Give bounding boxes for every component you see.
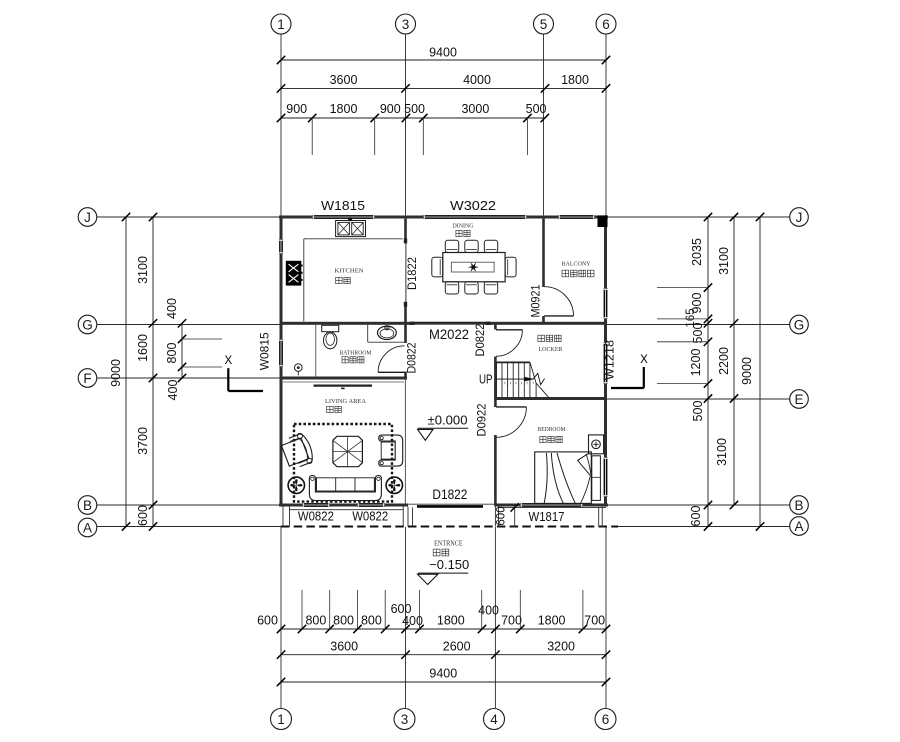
svg-text:W3022: W3022 — [450, 198, 496, 213]
stair treads — [496, 363, 498, 397]
svg-text:LIVING AREA: LIVING AREA — [325, 398, 366, 405]
svg-text:W1815: W1815 — [321, 198, 365, 213]
entrance step sides — [412, 508, 414, 527]
axis bubble 4 bottom — [484, 709, 505, 730]
kitchen sink — [336, 221, 366, 237]
svg-text:F: F — [83, 371, 91, 386]
svg-text:ENTRNCE: ENTRNCE — [434, 541, 463, 548]
axis G line left — [97, 324, 282, 326]
svg-text:700: 700 — [584, 614, 605, 628]
svg-text:600: 600 — [496, 506, 508, 525]
window W3022 — [423, 215, 527, 219]
dining chair right — [505, 257, 516, 277]
svg-text:400: 400 — [165, 298, 179, 319]
bed outline — [535, 452, 592, 504]
svg-text:−0.150: −0.150 — [429, 557, 469, 572]
door D0822 bathroom arc — [378, 346, 405, 373]
svg-text:3: 3 — [401, 712, 409, 727]
svg-text:3700: 3700 — [136, 427, 150, 455]
east wall — [604, 215, 607, 506]
wall hall-locker g4 — [494, 323, 497, 329]
svg-text:BALCONY: BALCONY — [562, 261, 591, 268]
door D1822 kitchen slider — [405, 242, 407, 304]
door M0921 balcony leaf — [544, 315, 573, 317]
svg-text:6: 6 — [602, 17, 610, 32]
svg-text:9400: 9400 — [429, 46, 457, 60]
window W0815 — [279, 339, 283, 367]
svg-text:D1822: D1822 — [432, 487, 467, 502]
basin counter — [367, 325, 369, 342]
axis bubble 3 bottom — [394, 709, 415, 730]
svg-text:9000: 9000 — [109, 359, 123, 387]
window balcony north — [558, 215, 595, 219]
svg-text:9000: 9000 — [740, 357, 754, 385]
door D0922 bedroom arc — [496, 407, 526, 437]
right dim line 9000 — [759, 217, 761, 527]
right dim line majors — [733, 217, 735, 505]
wall G kitchen-dining — [281, 322, 606, 325]
window W1218 — [604, 342, 608, 384]
svg-text:4000: 4000 — [463, 73, 491, 87]
bottom extension stubs — [301, 590, 303, 629]
toilet bowl — [324, 332, 337, 349]
toilet tank — [322, 325, 339, 331]
svg-text:UP: UP — [479, 373, 493, 387]
top extension stubs — [311, 118, 313, 155]
svg-text:600: 600 — [136, 505, 150, 526]
svg-text:±0.000: ±0.000 — [428, 413, 468, 428]
svg-text:400: 400 — [166, 380, 180, 401]
bathroom partition — [315, 325, 317, 377]
svg-text:4: 4 — [490, 712, 498, 727]
axis bubble F left — [78, 369, 97, 388]
tv cabinet line — [314, 385, 373, 387]
rug border — [294, 424, 392, 502]
svg-text:E: E — [794, 392, 803, 407]
svg-text:A: A — [83, 520, 92, 535]
svg-text:600: 600 — [257, 614, 278, 628]
axis bubble 5 top — [534, 14, 554, 34]
svg-text:1: 1 — [277, 17, 285, 32]
svg-text:3600: 3600 — [330, 73, 358, 87]
svg-text:D0822: D0822 — [473, 323, 487, 356]
svg-text:500: 500 — [404, 102, 425, 116]
svg-text:3200: 3200 — [547, 639, 575, 653]
kitchen counter left edge — [303, 239, 305, 322]
svg-text:B: B — [794, 498, 803, 513]
axis bubble 6 top — [596, 14, 616, 34]
svg-text:800: 800 — [333, 614, 354, 628]
svg-text:B: B — [83, 498, 92, 513]
armchair right — [379, 435, 403, 466]
axis bubble E right — [790, 390, 809, 409]
bottom dim line row2 — [281, 654, 606, 656]
svg-text:6: 6 — [602, 712, 610, 727]
svg-text:1: 1 — [277, 712, 285, 727]
svg-text:900: 900 — [286, 102, 307, 116]
window W0822 a — [302, 503, 330, 507]
grid line 3 bottom — [405, 527, 407, 708]
living top thin line — [283, 381, 404, 383]
stair arrow zigzag — [533, 373, 545, 384]
column grid6-J filled — [598, 215, 608, 227]
top dim line 9400 — [281, 59, 606, 61]
svg-text:1800: 1800 — [330, 102, 358, 116]
plant pot left — [288, 477, 304, 493]
svg-text:2600: 2600 — [443, 639, 471, 653]
svg-text:G: G — [82, 317, 93, 332]
svg-text:LOCKER: LOCKER — [539, 346, 564, 353]
svg-text:500: 500 — [526, 102, 547, 116]
svg-text:600: 600 — [689, 506, 703, 527]
wall F bathroom — [281, 377, 407, 380]
dining label cjk — [456, 230, 462, 236]
nightstand — [589, 435, 604, 454]
wall kitchen-dining g3 — [404, 219, 407, 242]
wall dining-balcony g5 — [542, 219, 545, 287]
door D0822 locker leaf — [496, 329, 522, 331]
stair break diagonal lower — [536, 383, 549, 398]
axis B line right — [606, 504, 790, 506]
armchair top-left — [280, 431, 316, 470]
axis bubble 1 bottom — [271, 709, 292, 730]
bed headboard — [592, 456, 601, 501]
svg-text:DINING: DINING — [453, 223, 475, 230]
balcony label cjk — [562, 270, 569, 277]
stair break diagonal upper — [530, 362, 536, 383]
svg-text:J: J — [796, 210, 803, 225]
grid line 1 top — [280, 34, 282, 216]
grid line 5 top — [543, 34, 545, 216]
axis A line left — [97, 526, 282, 528]
axis F line — [97, 377, 282, 379]
svg-text:KITCHEN: KITCHEN — [335, 268, 364, 275]
svg-text:800: 800 — [361, 614, 382, 628]
svg-text:X: X — [224, 355, 232, 367]
svg-text:W0815: W0815 — [258, 332, 272, 370]
svg-text:2200: 2200 — [717, 347, 731, 375]
basin bowl — [378, 326, 397, 339]
svg-text:3000: 3000 — [461, 102, 489, 116]
door D0822 bathroom leaf — [378, 371, 405, 373]
window kitchen west — [279, 239, 283, 254]
window bedroom east — [604, 457, 608, 497]
svg-text:W1218: W1218 — [603, 340, 617, 380]
window balcony east — [604, 288, 608, 319]
wall living-hall thin — [404, 380, 406, 504]
svg-text:500: 500 — [691, 401, 705, 422]
stair step ticks — [504, 382, 506, 384]
svg-text:5: 5 — [540, 17, 548, 32]
svg-text:3600: 3600 — [330, 639, 358, 653]
south wall — [279, 504, 408, 507]
dining table — [443, 253, 505, 282]
axis bubble 1 top — [271, 14, 291, 34]
svg-text:M2022: M2022 — [429, 327, 469, 342]
door M2022 slider — [414, 321, 486, 323]
axis G line right — [606, 324, 790, 326]
svg-text:1800: 1800 — [561, 73, 589, 87]
right dim line segments — [707, 217, 709, 527]
door D0922 bedroom leaf — [496, 406, 526, 408]
window W1815 — [312, 215, 375, 219]
svg-text:M0921: M0921 — [528, 284, 542, 317]
svg-text:D0822: D0822 — [405, 342, 419, 373]
svg-text:800: 800 — [165, 343, 179, 364]
grid line 6 top — [605, 34, 607, 216]
entrance label cjk — [433, 549, 440, 556]
svg-text:700: 700 — [501, 614, 522, 628]
sofa — [309, 476, 381, 501]
door D1822 entrance panel — [417, 505, 483, 508]
svg-text:1600: 1600 — [136, 334, 150, 362]
grid line 4 bottom — [494, 527, 496, 708]
kitchen label cjk — [336, 277, 342, 283]
west wall — [280, 215, 283, 506]
coffee table — [333, 436, 363, 466]
bedroom label cjk — [540, 436, 546, 442]
svg-text:W0822: W0822 — [298, 510, 334, 524]
porch left box — [282, 507, 284, 527]
axis bubble 3 top — [396, 14, 416, 34]
svg-text:BATHROOM: BATHROOM — [340, 349, 372, 356]
porch edge dashed line A — [281, 526, 618, 528]
living label cjk — [327, 406, 333, 412]
axis bubble G left — [78, 315, 97, 334]
svg-text:900: 900 — [380, 102, 401, 116]
dining centerpiece plant — [468, 262, 479, 272]
kitchen stove — [286, 261, 301, 285]
axis J line — [97, 216, 791, 218]
left extension stubs — [182, 338, 222, 340]
floor drain — [295, 364, 303, 372]
door M0921 balcony arc — [544, 287, 573, 316]
axis E line — [606, 398, 790, 400]
axis B line left — [97, 504, 282, 506]
svg-text:3100: 3100 — [136, 256, 150, 284]
dining chair left — [432, 257, 443, 277]
svg-text:G: G — [794, 317, 805, 332]
left dim line window — [181, 323, 183, 378]
dining table inner — [451, 262, 494, 272]
svg-text:D1822: D1822 — [405, 257, 419, 290]
svg-text:9400: 9400 — [429, 667, 457, 681]
north wall — [279, 216, 608, 219]
wall E stairs-bedroom — [494, 397, 606, 400]
svg-text:500: 500 — [691, 323, 705, 344]
stair tread after break — [535, 383, 537, 397]
svg-text:1800: 1800 — [437, 614, 465, 628]
svg-text:J: J — [84, 210, 91, 225]
svg-text:800: 800 — [305, 614, 326, 628]
bathroom label cjk — [342, 357, 348, 363]
right extension stubs — [657, 287, 708, 289]
grid line 3 top — [405, 34, 407, 216]
svg-text:1200: 1200 — [689, 349, 703, 377]
bed blanket curves — [544, 453, 547, 503]
window W0822 b — [357, 503, 385, 507]
top dim line row2 — [281, 87, 606, 89]
dining chairs top — [445, 240, 458, 252]
stair up arrowhead — [525, 377, 535, 382]
svg-text:3100: 3100 — [715, 438, 729, 466]
svg-text:X: X — [640, 354, 648, 366]
svg-text:3: 3 — [402, 17, 410, 32]
bed pillow — [578, 453, 591, 475]
kitchen counter top edge — [304, 238, 403, 240]
svg-text:D0922: D0922 — [475, 403, 489, 436]
dining chairs bottom — [445, 282, 458, 294]
axis bubble G right — [790, 315, 809, 334]
axis bubble B right — [790, 496, 809, 515]
bottom dim line row1 — [281, 628, 606, 630]
window W1817 — [520, 503, 583, 507]
top dim line row3 — [281, 117, 545, 119]
porch right box — [498, 507, 500, 527]
axis bubble J right — [790, 208, 809, 227]
axis bubble A right — [790, 517, 809, 536]
svg-text:W1817: W1817 — [529, 510, 565, 524]
grid line 1 bottom — [280, 527, 282, 708]
svg-text:W0822: W0822 — [352, 510, 388, 524]
axis A line right — [618, 526, 790, 528]
locker label cjk — [538, 335, 545, 342]
svg-text:2035: 2035 — [690, 238, 704, 266]
svg-text:3100: 3100 — [717, 247, 731, 275]
axis bubble A left — [78, 518, 97, 537]
left dim line 9000 — [125, 217, 127, 527]
left dim line segments — [152, 217, 154, 527]
axis bubble B left — [78, 496, 97, 515]
bottom dim line 9400 — [281, 681, 606, 683]
svg-text:1800: 1800 — [538, 614, 566, 628]
svg-text:BEDROOM: BEDROOM — [538, 426, 566, 433]
axis bubble 6 bottom — [595, 709, 616, 730]
wall bathroom-hall g3 — [404, 323, 407, 343]
grid line 6 bottom — [605, 527, 607, 708]
stair top edge — [495, 361, 530, 363]
svg-text:A: A — [794, 519, 803, 534]
plant pot right — [386, 477, 402, 493]
stair up arrow line — [497, 378, 534, 380]
door D0822 locker arc — [496, 330, 522, 356]
axis bubble J left — [78, 208, 97, 227]
